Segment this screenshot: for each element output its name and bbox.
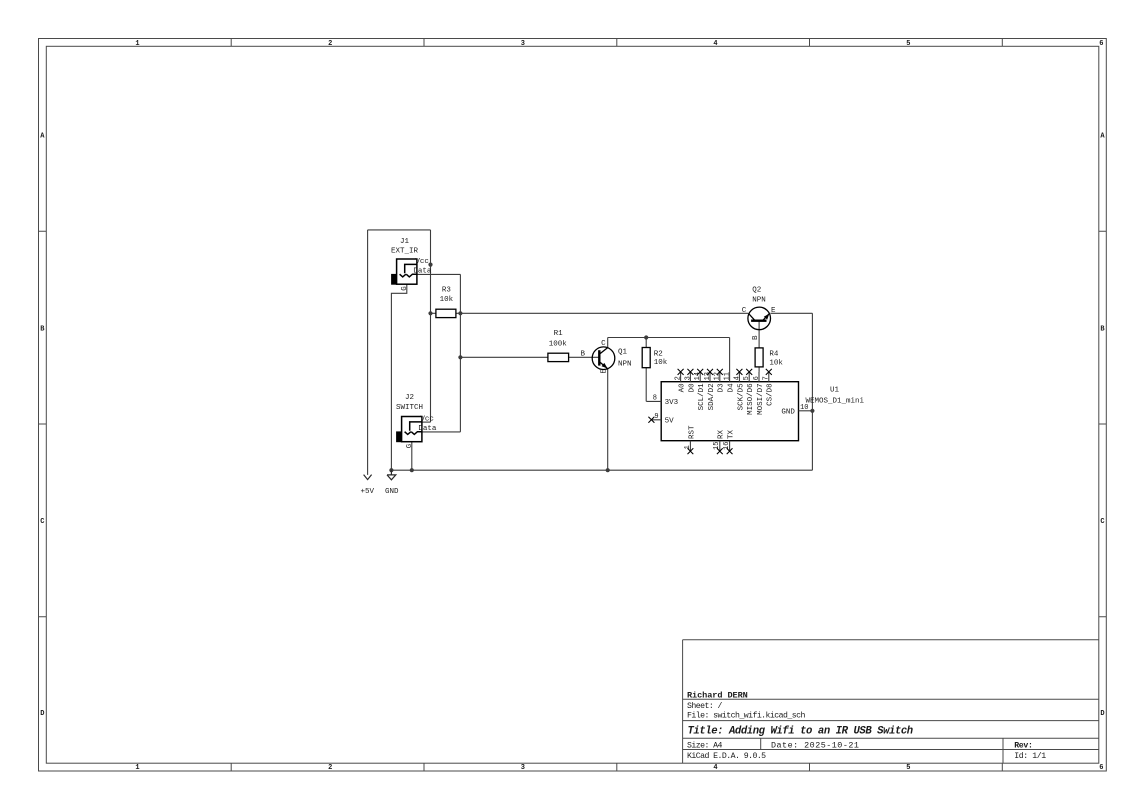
U1 top pin stubs [646, 372, 812, 451]
wire R2 bottom lead to pin 3V3 [645, 368, 647, 402]
wire Q2 base to R4 [758, 321, 760, 348]
svg-text:D3: D3 [718, 383, 726, 393]
svg-text:1: 1 [135, 40, 139, 48]
svg-text:Data: Data [418, 425, 437, 433]
svg-text:Data: Data [413, 268, 432, 276]
wire data column vertical x460.4 [459, 274, 461, 432]
power symbol +5V arrow [364, 475, 372, 480]
no-connect X pin 7 CS/D8 [766, 369, 772, 375]
svg-text:D4: D4 [728, 383, 736, 393]
wire J2 Data pin lead [422, 431, 461, 433]
wire Q1 emitter down to gnd rail [607, 369, 609, 470]
connector J1 audio jack [397, 259, 417, 284]
junction node R2 top [644, 335, 648, 339]
svg-text:100k: 100k [549, 341, 568, 349]
svg-text:5V: 5V [665, 417, 675, 425]
svg-text:D: D [40, 710, 44, 718]
no-connect X pin 2 A0 [678, 369, 684, 375]
svg-text:J2: J2 [405, 394, 414, 402]
svg-text:C: C [601, 340, 606, 348]
svg-text:8: 8 [653, 394, 657, 402]
svg-text:4: 4 [733, 376, 741, 380]
U1 pin 5 MISO/D6 [743, 376, 751, 380]
frame row ticks right [1099, 231, 1107, 617]
svg-text:EXT_IR: EXT_IR [391, 248, 419, 256]
wire node to Q2 collector long horizontal [460, 312, 748, 314]
title block [683, 640, 1099, 764]
svg-text:R3: R3 [442, 287, 452, 295]
junction node R3 left [428, 311, 432, 315]
resistor R4 [755, 348, 763, 367]
ground symbol GND [387, 470, 396, 480]
U1 pin 7 CS/D8 [763, 376, 771, 380]
svg-text:SCL/D1: SCL/D1 [698, 383, 706, 411]
svg-text:KiCad E.D.A. 9.0.5: KiCad E.D.A. 9.0.5 [687, 751, 766, 761]
svg-text:Id: 1/1: Id: 1/1 [1014, 751, 1046, 761]
svg-text:C: C [742, 307, 747, 315]
svg-text:TX: TX [728, 429, 736, 439]
svg-text:Richard DERN: Richard DERN [687, 690, 748, 700]
U1 left pin stubs 3V3 5V [646, 401, 661, 419]
svg-text:Sheet: /: Sheet: / [687, 701, 723, 711]
svg-text:11: 11 [724, 372, 732, 380]
resistor R2 [642, 348, 650, 368]
no-connect X pin 16 TX [727, 448, 733, 454]
wire Vcc vertical x430.5 [430, 230, 432, 422]
svg-text:3: 3 [521, 40, 525, 48]
svg-text:10k: 10k [654, 359, 668, 367]
svg-text:B: B [581, 351, 586, 359]
svg-text:R4: R4 [769, 351, 779, 359]
svg-text:3: 3 [684, 376, 692, 380]
junction node data / R1 [458, 355, 462, 359]
no-connect X pin 14 SCL/D1 [697, 369, 703, 375]
U1 pin 16 TX [723, 441, 731, 449]
U1 pin 12 D3 [714, 372, 722, 380]
svg-text:MISO/D6: MISO/D6 [747, 383, 755, 415]
svg-text:SDA/D2: SDA/D2 [708, 383, 716, 410]
svg-text:E: E [771, 307, 776, 315]
svg-text:Q1: Q1 [618, 348, 628, 356]
svg-text:B: B [752, 335, 760, 340]
svg-text:Vcc: Vcc [415, 258, 429, 266]
svg-text:5: 5 [906, 40, 910, 48]
frame row letters left [40, 133, 45, 719]
svg-text:RX: RX [718, 429, 726, 439]
wire +5V top horizontal [368, 229, 431, 231]
svg-text:9: 9 [654, 413, 658, 421]
svg-text:RST: RST [688, 425, 696, 439]
svg-text:U1: U1 [830, 387, 840, 395]
no-connect X pin 4 SCK/D5 [736, 369, 742, 375]
wire J2 Vcc pin lead [422, 421, 431, 423]
svg-text:1: 1 [135, 764, 139, 772]
svg-text:3: 3 [521, 764, 525, 772]
wire J1 sleeve G down-left to gnd [391, 284, 406, 470]
no-connect X pin 13 SDA/D2 [707, 369, 713, 375]
wire R2 top lead [645, 338, 647, 348]
junction node Vcc/J1 [428, 263, 432, 267]
U1 pin 11 D4 [724, 372, 732, 380]
transistor Q2 NPN [748, 307, 771, 330]
svg-text:WEMOS_D1_mini: WEMOS_D1_mini [806, 398, 865, 406]
junction node U1 GND pin / right vertical [810, 409, 814, 413]
connector J2 audio jack [402, 417, 422, 442]
wire right vertical x812.4 [811, 313, 813, 470]
svg-text:4: 4 [713, 40, 717, 48]
svg-text:C: C [1100, 518, 1104, 526]
frame row letters right [1100, 133, 1105, 719]
no-connect X pin 5 MISO/D6 [746, 369, 752, 375]
svg-text:4: 4 [713, 764, 717, 772]
U1 pin 13 SDA/D2 [704, 372, 712, 380]
junction node gnd symbol [389, 468, 393, 472]
svg-text:Size: A4: Size: A4 [687, 740, 723, 750]
junction node J2 G / gnd rail [410, 468, 414, 472]
no-connect X pin 12 D3 [717, 369, 723, 375]
U1 pin 4 SCK/D5 [733, 376, 741, 380]
svg-text:GND: GND [781, 408, 795, 416]
wire +5V left vertical [367, 230, 369, 475]
ic U1 WEMOS_D1_mini body [661, 382, 798, 441]
wire Q1 collector up [607, 338, 609, 348]
svg-text:D0: D0 [688, 383, 696, 393]
U1 pin 3 D0 [684, 376, 692, 380]
svg-text:E: E [601, 369, 609, 374]
svg-text:Vcc: Vcc [420, 416, 434, 424]
frame column ticks top [231, 39, 1002, 47]
svg-text:6: 6 [753, 376, 761, 380]
wire R4 bottom lead to pin D7 [758, 367, 760, 372]
wire R3 left lead [431, 312, 436, 314]
no-connect X pin 9 5V [648, 417, 654, 423]
svg-text:G: G [401, 286, 409, 291]
svg-text:A0: A0 [679, 383, 687, 393]
svg-text:7: 7 [763, 376, 771, 380]
U1 pin 15 RX [713, 441, 721, 449]
svg-text:10k: 10k [440, 296, 454, 304]
U1 pin 6 MOSI/D7 [753, 376, 761, 380]
svg-text:D: D [1100, 710, 1104, 718]
no-connect X pin 15 RX [717, 448, 723, 454]
svg-text:+5V: +5V [360, 488, 374, 496]
svg-text:C: C [40, 518, 44, 526]
svg-text:J1: J1 [400, 238, 410, 246]
frame column numbers bottom [135, 764, 1103, 772]
svg-text:NPN: NPN [618, 360, 632, 368]
svg-text:5: 5 [906, 764, 910, 772]
transistor Q1 NPN [592, 347, 615, 370]
wire J1 Data to node column [417, 273, 461, 275]
svg-text:2: 2 [328, 40, 332, 48]
svg-text:Rev:: Rev: [1014, 741, 1032, 750]
svg-text:2: 2 [675, 376, 683, 380]
svg-text:R2: R2 [654, 350, 663, 358]
svg-text:CS/D8: CS/D8 [767, 383, 775, 406]
no-connect X pin 1 RST [688, 448, 694, 454]
svg-text:5: 5 [743, 376, 751, 380]
wire R1 to Q1 base [569, 356, 600, 358]
U1 pin 1 RST [684, 445, 692, 449]
wire down to pin D4 [729, 338, 731, 372]
frame column ticks bottom [231, 763, 1002, 771]
svg-text:File: switch_wifi.kicad_sch: File: switch_wifi.kicad_sch [687, 711, 805, 721]
svg-text:2: 2 [328, 764, 332, 772]
wire Q1 collector to D4 horizontal [608, 337, 730, 339]
CIRCUIT [368, 230, 813, 475]
frame column numbers top [135, 40, 1103, 48]
svg-text:NPN: NPN [752, 296, 766, 304]
frame row ticks left [39, 231, 47, 617]
U1 pin 2 A0 [675, 376, 683, 380]
wire J2 sleeve G down to gnd [411, 442, 413, 471]
svg-text:Q2: Q2 [752, 287, 761, 295]
wire R3 right lead [456, 312, 461, 314]
svg-text:SCK/D5: SCK/D5 [737, 383, 745, 411]
junction node Q1 emitter / gnd rail [606, 468, 610, 472]
svg-text:10: 10 [800, 404, 808, 412]
svg-text:GND: GND [385, 488, 399, 496]
svg-text:G: G [406, 443, 414, 448]
no-connect X pin 3 D0 [687, 369, 693, 375]
svg-text:Date: 2025-10-21: Date: 2025-10-21 [771, 740, 859, 750]
wire Q2 emitter lead [771, 312, 813, 314]
wire node to R1 left lead [460, 356, 548, 358]
svg-text:6: 6 [1099, 40, 1103, 48]
U1 bottom pin stubs RST RX TX [690, 441, 729, 452]
wire gnd rail horizontal [391, 469, 812, 471]
svg-text:R1: R1 [554, 330, 564, 338]
svg-text:Title: Adding Wifi to an IR US: Title: Adding Wifi to an IR USB Switch [688, 726, 913, 738]
svg-text:MOSI/D7: MOSI/D7 [757, 383, 765, 415]
resistor R1 [548, 353, 569, 361]
svg-text:10k: 10k [769, 359, 783, 367]
svg-text:SWITCH: SWITCH [396, 404, 423, 412]
U1 right pin stub GND [799, 410, 813, 412]
U1 pin 14 SCL/D1 [694, 372, 702, 380]
svg-text:3V3: 3V3 [665, 399, 679, 407]
junction node R3 right / data [458, 311, 462, 315]
svg-text:6: 6 [1099, 764, 1103, 772]
resistor R3 [436, 309, 456, 317]
